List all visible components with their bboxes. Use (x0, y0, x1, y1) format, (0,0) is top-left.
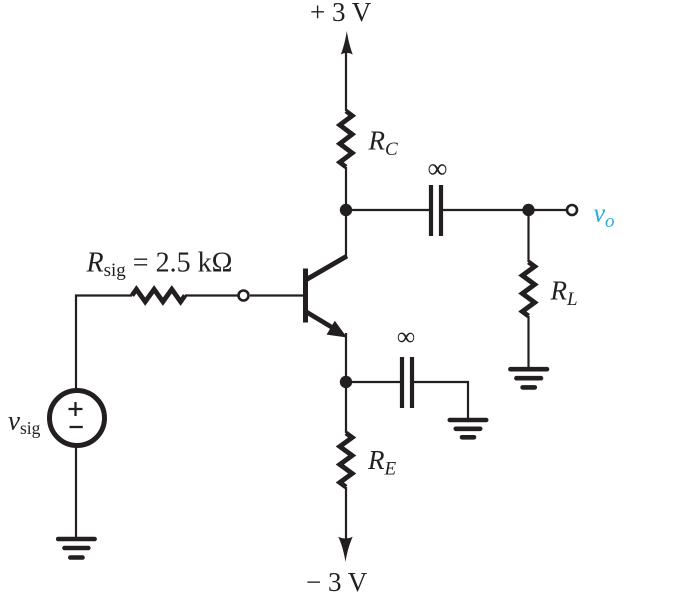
svg-text:− 3 V: − 3 V (306, 567, 368, 597)
svg-text:RC: RC (368, 126, 399, 161)
svg-text:∞: ∞ (397, 322, 416, 351)
svg-text:∞: ∞ (428, 154, 448, 185)
svg-text:vsig: vsig (8, 406, 41, 439)
svg-text:RE: RE (367, 445, 397, 480)
svg-text:vo: vo (594, 199, 615, 233)
svg-text:RL: RL (550, 276, 578, 311)
svg-text:Rsig = 2.5 kΩ: Rsig = 2.5 kΩ (86, 248, 233, 282)
svg-text:+ 3 V: + 3 V (310, 0, 372, 27)
